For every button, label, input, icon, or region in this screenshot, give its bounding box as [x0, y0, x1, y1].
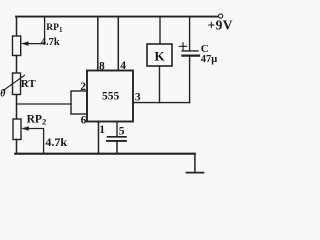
wire: pin 5 lead — [116, 122, 118, 137]
svg-text:5: 5 — [119, 126, 125, 138]
svg-text:6: 6 — [81, 115, 87, 127]
wire: +9V top rail — [16, 16, 219, 18]
thermistor RT — [13, 73, 21, 95]
polarity plus sign of capacitor C — [179, 43, 186, 50]
wire: relay K bottom lead to pin 3 net — [159, 66, 161, 103]
wire: RP2 wiper arm down to ground rail — [27, 129, 44, 154]
svg-text:8: 8 — [99, 61, 105, 73]
ground — [187, 172, 204, 174]
wire: capacitor C bottom lead to pin 3 net — [189, 57, 191, 103]
capacitor C1 at pin 5, top plate — [108, 136, 127, 138]
IC U1 555 timer body — [87, 71, 133, 122]
svg-text:K: K — [154, 49, 165, 64]
capacitor C top plate — [182, 50, 198, 52]
wire: RP1 wiper arm to rail — [27, 17, 45, 44]
svg-text:+9V: +9V — [208, 17, 233, 32]
wire: RP1 bottom to RT — [16, 56, 18, 74]
wiper arrow of RP2 — [21, 126, 29, 130]
svg-text:θ: θ — [0, 88, 6, 99]
svg-text:RT: RT — [21, 78, 37, 90]
capacitor C bottom plate — [183, 54, 200, 56]
svg-text:2: 2 — [80, 81, 86, 93]
svg-text:555: 555 — [102, 91, 120, 103]
wire: pin 4 to rail — [117, 17, 119, 71]
svg-text:4.7k: 4.7k — [41, 37, 60, 48]
wire: pins 2-6 short loop — [71, 91, 87, 114]
wire: pin 3 output — [133, 102, 190, 104]
resistor RP2 — [13, 119, 21, 140]
relay K coil box — [147, 44, 172, 66]
wire: pin 8 to rail — [97, 17, 99, 71]
resistor RP1 — [13, 36, 21, 56]
wire: junction node to 555 pins 2-6 loop — [17, 103, 72, 105]
capacitor C1 at pin 5, bottom plate — [107, 140, 126, 142]
wire: RP2 bottom to ground rail — [16, 140, 18, 154]
wire: RP1 top lead from rail — [16, 17, 18, 37]
svg-text:3: 3 — [135, 92, 141, 104]
wire: pin 1 to ground rail — [98, 122, 100, 154]
wiper arrow of RP1 — [21, 41, 29, 45]
thermistor RT diagonal stroke — [4, 75, 25, 90]
svg-text:4.7k: 4.7k — [45, 135, 67, 149]
wire: capacitor C top lead from rail — [189, 17, 191, 51]
wire: ground rail drop — [194, 154, 196, 173]
node: +9V terminal circle — [219, 14, 223, 18]
wire: RT bottom to RP2 — [16, 95, 18, 120]
wire: relay K top lead from rail — [159, 17, 161, 45]
svg-text:47μ: 47μ — [201, 54, 218, 65]
wire: pin5 capacitor to ground rail — [116, 142, 118, 154]
wire: ground bottom rail — [15, 153, 195, 155]
svg-text:4: 4 — [120, 60, 126, 72]
svg-text:1: 1 — [99, 124, 105, 136]
